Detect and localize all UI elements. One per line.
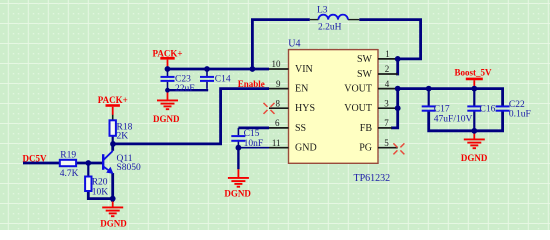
wire C23 bottom lead to ground [167, 82, 169, 93]
pin 4 stub [378, 88, 398, 90]
svg-text:R20: R20 [92, 178, 108, 188]
pin 11 stub [269, 147, 289, 149]
node junction VIN at PACK+ [165, 66, 171, 72]
capacitor C17 [422, 106, 436, 110]
svg-text:C14: C14 [215, 74, 231, 84]
svg-text:7: 7 [384, 118, 389, 128]
transistor Q11 [103, 151, 113, 173]
svg-text:DC5V: DC5V [23, 153, 47, 163]
svg-text:8: 8 [276, 98, 281, 108]
pin 6 stub [269, 127, 289, 129]
resistor R20 [85, 177, 91, 192]
node junction R18 bottom [110, 141, 116, 147]
wire C15 top lead [237, 128, 239, 135]
wire L3 right to SW corner [359, 20, 420, 59]
ground DGND under Q11 [102, 200, 123, 216]
wire C23 top lead [167, 69, 169, 76]
svg-text:DGND: DGND [100, 219, 127, 229]
pin 7 stub [378, 127, 392, 129]
svg-text:10nF: 10nF [244, 139, 264, 149]
svg-text:VOUT: VOUT [344, 103, 372, 114]
svg-text:C15: C15 [244, 129, 260, 139]
capacitor C16 [467, 106, 481, 110]
wire C14 leads and join [206, 69, 208, 89]
svg-text:5: 5 [384, 138, 389, 148]
ground DGND under C16 [464, 132, 485, 148]
svg-text:SW: SW [357, 54, 373, 65]
svg-text:PACK+: PACK+ [153, 49, 183, 59]
capacitor C14 [200, 77, 214, 81]
svg-text:Enable: Enable [238, 79, 265, 89]
pin 8 stub [269, 107, 289, 109]
node junction VOUT pin4 [395, 86, 401, 92]
inductor L3 [310, 15, 360, 20]
capacitor C23 [161, 77, 175, 81]
svg-text:47uF/10V: 47uF/10V [434, 114, 473, 124]
svg-text:SS: SS [295, 123, 306, 134]
pin 10 stub [269, 68, 289, 70]
ground DGND under C15 [228, 169, 249, 186]
wire Enable net [113, 89, 269, 144]
svg-text:PG: PG [359, 143, 372, 154]
wire caps bottom bus right [429, 112, 503, 131]
wire VIN net horizontal [168, 68, 270, 71]
svg-text:VIN: VIN [295, 64, 313, 75]
node junction C15 GND pin [236, 145, 242, 151]
svg-text:HYS: HYS [295, 103, 315, 114]
resistor R19 [60, 160, 76, 166]
svg-text:U4: U4 [288, 39, 300, 50]
wire DC5V to R19 [23, 162, 60, 165]
svg-text:DGND: DGND [461, 153, 488, 163]
wire VOUT to pin3 and FB [391, 89, 398, 128]
wire R18 bottom lead [112, 136, 114, 144]
capacitor C22 [496, 106, 510, 110]
resistor R18 [110, 120, 116, 136]
wire C16 lead bottom [473, 112, 475, 131]
svg-text:3: 3 [384, 98, 389, 108]
pin 1 stub [378, 58, 398, 60]
wire SW pins tie vertical [396, 59, 398, 74]
capacitor C15 [231, 136, 245, 141]
svg-text:C17: C17 [434, 104, 450, 114]
svg-text:VOUT: VOUT [344, 84, 372, 95]
power symbol PACK+ at C23 [160, 58, 174, 68]
wire VOUT net horizontal [398, 89, 503, 106]
node junction C23 ground [165, 88, 170, 93]
svg-text:FB: FB [360, 123, 373, 134]
node junction R19 R20 base [85, 160, 91, 166]
ground DGND under C23 [157, 92, 178, 109]
node junction C16 top [471, 86, 477, 92]
pin 5 stub [378, 147, 398, 149]
svg-text:GND: GND [295, 143, 317, 154]
wire Q11 collector up [111, 144, 114, 151]
pin 2 stub [378, 73, 398, 75]
wire SS pin to C15 [238, 127, 269, 130]
svg-text:Boost_5V: Boost_5V [455, 68, 493, 78]
svg-text:R19: R19 [60, 151, 76, 161]
svg-text:4.7K: 4.7K [60, 169, 79, 179]
node junction VOUT pin3 [395, 105, 401, 111]
svg-text:6: 6 [275, 118, 280, 128]
node junction C17 top [426, 86, 432, 92]
svg-text:2.2uH: 2.2uH [318, 22, 342, 32]
wire C15 ground drop [237, 148, 239, 170]
svg-text:2: 2 [385, 64, 390, 74]
wire R20 bottom to emitter [88, 191, 112, 199]
svg-text:DGND: DGND [153, 114, 180, 124]
wire C14 bottom join [168, 89, 209, 91]
node junction VIN at C14 [204, 66, 210, 72]
node junction SW pin1 [395, 56, 401, 62]
svg-text:11: 11 [272, 138, 281, 148]
svg-text:4: 4 [385, 79, 390, 89]
pin 3 stub [378, 107, 398, 109]
wire left vertical riser to L3 [252, 20, 309, 69]
svg-text:10K: 10K [92, 187, 109, 197]
node junction VIN at riser [250, 66, 256, 72]
svg-text:2K: 2K [117, 131, 129, 141]
pin 9 stub [269, 88, 289, 90]
svg-text:PACK+: PACK+ [98, 95, 128, 105]
IC U4 body [289, 50, 379, 164]
svg-text:9: 9 [276, 79, 281, 89]
svg-text:S8050: S8050 [117, 163, 142, 173]
wire GND pin to C15 bottom [238, 140, 269, 148]
power symbol PACK+ at R18 [106, 106, 120, 115]
no-connect X pin 5 [393, 143, 404, 154]
svg-text:DGND: DGND [224, 188, 251, 198]
svg-text:C16: C16 [480, 104, 496, 114]
wire C16 lead top [473, 89, 475, 106]
node junction R20 emitter [110, 196, 116, 202]
wire R20 top lead [87, 163, 89, 177]
svg-text:22uF: 22uF [175, 84, 195, 94]
no-connect X pin 8 [264, 103, 275, 114]
node junction C16 bottom [471, 128, 477, 134]
power symbol Boost_5V [466, 79, 483, 88]
svg-text:EN: EN [295, 84, 308, 95]
wire C17 lead top [428, 89, 430, 106]
wire R18 top lead [112, 115, 114, 121]
svg-text:1: 1 [385, 49, 390, 59]
svg-text:10: 10 [272, 59, 282, 69]
svg-text:SW: SW [357, 69, 373, 80]
wire R19 to Q11 base [76, 162, 102, 165]
svg-text:0.1uF: 0.1uF [509, 109, 531, 119]
svg-text:C22: C22 [509, 100, 525, 110]
svg-text:TP61232: TP61232 [354, 173, 391, 184]
svg-text:L3: L3 [317, 6, 328, 16]
wire Q11 emitter down [111, 173, 114, 202]
